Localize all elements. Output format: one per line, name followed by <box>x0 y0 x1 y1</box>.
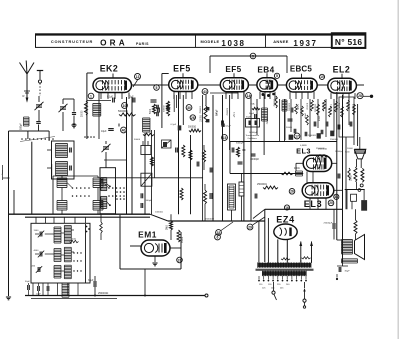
svg-text:EF5: EF5 <box>173 63 191 73</box>
svg-text:0,1µF: 0,1µF <box>226 126 232 128</box>
svg-text:10000pF: 10000pF <box>335 151 344 153</box>
svg-text:1937: 1937 <box>293 39 317 48</box>
svg-text:400Ω: 400Ω <box>319 115 321 121</box>
svg-text:Transformateur: Transformateur <box>246 134 260 137</box>
svg-text:10: 10 <box>123 104 127 108</box>
svg-text:26: 26 <box>290 190 294 194</box>
svg-text:EK2: EK2 <box>100 63 119 73</box>
svg-text:30µF: 30µF <box>345 271 351 273</box>
svg-text:PARIS: PARIS <box>136 42 149 46</box>
svg-text:EL3: EL3 <box>304 199 323 209</box>
svg-text:50000Ω: 50000Ω <box>288 103 290 111</box>
svg-text:30: 30 <box>187 106 191 110</box>
svg-text:0,1µF: 0,1µF <box>171 124 177 126</box>
svg-text:20000Ω: 20000Ω <box>199 106 201 114</box>
svg-text:50000: 50000 <box>286 127 293 129</box>
svg-text:31: 31 <box>178 258 182 262</box>
svg-text:EM1: EM1 <box>138 229 157 239</box>
svg-text:28: 28 <box>358 94 362 98</box>
svg-text:0,1µF: 0,1µF <box>107 97 114 99</box>
svg-text:5000Ω: 5000Ω <box>164 105 166 112</box>
svg-text:30µF: 30µF <box>88 279 94 282</box>
svg-text:2µF: 2µF <box>130 97 135 99</box>
svg-text:43: 43 <box>203 90 207 94</box>
svg-text:1500: 1500 <box>34 230 40 232</box>
svg-text:380Ω: 380Ω <box>351 175 353 181</box>
svg-text:5000: 5000 <box>150 108 152 114</box>
svg-text:EL2: EL2 <box>333 65 351 75</box>
svg-text:MODELE: MODELE <box>200 39 219 44</box>
svg-text:20000Ω: 20000Ω <box>308 135 316 137</box>
svg-text:N° 516: N° 516 <box>335 37 363 47</box>
svg-text:26: 26 <box>191 116 195 120</box>
svg-text:Oscillateur: Oscillateur <box>248 137 258 140</box>
svg-text:10000pF: 10000pF <box>322 103 324 112</box>
svg-text:250000Ω: 250000Ω <box>316 148 325 150</box>
svg-text:5: 5 <box>156 86 158 90</box>
svg-text:10000: 10000 <box>347 148 354 150</box>
svg-text:5000µF: 5000µF <box>236 143 244 145</box>
svg-text:2MΩ: 2MΩ <box>167 225 169 230</box>
svg-text:25000: 25000 <box>182 236 184 243</box>
svg-text:0,1µF: 0,1µF <box>233 112 235 118</box>
svg-text:29: 29 <box>248 225 252 229</box>
svg-text:EBC5: EBC5 <box>290 65 312 74</box>
svg-text:50000: 50000 <box>134 139 141 141</box>
svg-text:10000pF: 10000pF <box>249 132 258 134</box>
svg-text:20000Ω: 20000Ω <box>273 99 275 107</box>
svg-text:50Ω: 50Ω <box>72 239 76 241</box>
svg-text:10000Ω: 10000Ω <box>155 212 163 214</box>
svg-text:1500pF: 1500pF <box>145 200 153 202</box>
svg-text:5: 5 <box>252 54 254 58</box>
svg-text:20000: 20000 <box>82 110 84 117</box>
svg-text:40: 40 <box>122 128 126 132</box>
svg-text:5: 5 <box>276 74 278 78</box>
svg-text:6: 6 <box>217 235 219 239</box>
svg-text:50000Ω: 50000Ω <box>188 127 196 129</box>
svg-text:4000: 4000 <box>34 250 40 252</box>
svg-text:10: 10 <box>320 75 324 79</box>
svg-text:EL3: EL3 <box>296 147 311 156</box>
svg-text:50µF: 50µF <box>249 113 255 115</box>
svg-text:ANNEE: ANNEE <box>273 39 289 44</box>
svg-text:CONSTRUCTEUR: CONSTRUCTEUR <box>51 39 93 44</box>
svg-text:15: 15 <box>223 136 227 140</box>
svg-text:EB4: EB4 <box>257 65 274 74</box>
svg-text:1µF: 1µF <box>216 112 218 116</box>
svg-text:1: 1 <box>90 94 92 98</box>
svg-text:17: 17 <box>295 134 299 138</box>
svg-text:EZ4: EZ4 <box>276 214 295 224</box>
svg-text:7mA: 7mA <box>250 103 255 106</box>
svg-text:40µF: 40µF <box>305 112 307 118</box>
svg-text:13: 13 <box>136 75 140 79</box>
svg-text:25000µF: 25000µF <box>324 223 333 225</box>
svg-text:0,5MΩ: 0,5MΩ <box>300 145 307 147</box>
svg-text:14: 14 <box>247 94 251 98</box>
svg-text:10000pF: 10000pF <box>250 159 260 161</box>
svg-text:4000Ω: 4000Ω <box>306 103 308 110</box>
svg-text:500000Ω: 500000Ω <box>118 110 128 113</box>
svg-text:1038: 1038 <box>221 39 245 48</box>
svg-text:400Ω: 400Ω <box>294 168 300 170</box>
svg-text:20: 20 <box>329 201 333 205</box>
svg-text:150000Ω: 150000Ω <box>205 219 214 221</box>
svg-text:30µF: 30µF <box>25 281 31 283</box>
svg-text:33: 33 <box>217 231 221 235</box>
svg-text:250000Ω: 250000Ω <box>98 292 108 295</box>
svg-text:500pF: 500pF <box>20 123 23 130</box>
svg-text:EF5: EF5 <box>225 65 241 74</box>
svg-text:16: 16 <box>285 206 289 210</box>
svg-text:ORA: ORA <box>100 38 128 47</box>
svg-text:1000Ω: 1000Ω <box>266 118 268 125</box>
svg-text:10µF: 10µF <box>101 130 107 133</box>
svg-text:250000Ω: 250000Ω <box>257 183 267 186</box>
svg-text:50000Ω: 50000Ω <box>226 108 228 116</box>
svg-text:R: R <box>23 94 25 98</box>
